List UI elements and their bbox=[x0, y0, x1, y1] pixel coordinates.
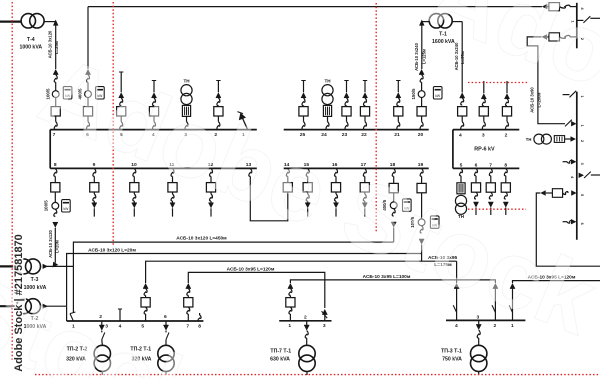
svg-text:5: 5 bbox=[580, 194, 584, 196]
TP-7 LV bus bbox=[279, 320, 331, 322]
wire riser to incomer 6 bbox=[87, 7, 89, 69]
svg-text:4: 4 bbox=[459, 132, 462, 138]
watermark big diagonal bbox=[26, 36, 600, 355]
right bay switch to east bbox=[577, 19, 584, 21]
cable АСБ-10 3х95 L=175м to TP-3 bbox=[146, 261, 457, 283]
svg-text:АСБ-10 3х95 L=120м: АСБ-10 3х95 L=120м bbox=[227, 267, 275, 273]
svg-text:ТП-3 Т-1: ТП-3 Т-1 bbox=[441, 348, 462, 354]
TP-7 transformer T-1 bbox=[299, 345, 315, 361]
feeder bay 16 bbox=[335, 168, 338, 176]
svg-text:3: 3 bbox=[482, 132, 485, 138]
svg-text:kW: kW bbox=[435, 94, 441, 98]
red boundary dotted bottom bbox=[35, 374, 600, 376]
cable АСБ-10 3х95 L=120м TP-2 to TP-7 bbox=[188, 272, 324, 308]
wire T-1 cable down to bay 20 bbox=[421, 22, 423, 69]
feeder bay 22 bbox=[363, 80, 367, 82]
TP-2 bay 8 stub bbox=[199, 313, 201, 315]
cable bay 19 with CT 100/5 bbox=[420, 168, 423, 176]
right bay 5 cable feeder west bbox=[540, 190, 545, 195]
node T-1 cable termination arrow bbox=[419, 20, 424, 26]
cable АСБ-10 3х95 L=120м TP-3 to east bbox=[513, 281, 600, 283]
svg-text:ТН: ТН bbox=[324, 78, 331, 83]
svg-text:АСБ-10 3х120: АСБ-10 3х120 bbox=[48, 30, 53, 58]
svg-text:ТН: ТН bbox=[183, 78, 190, 83]
TP-2 bay 6 transformer T-1 drop bbox=[165, 321, 167, 325]
bus left edge bbox=[49, 130, 51, 169]
svg-text:АСБ-10 3х120 L=450м: АСБ-10 3х120 L=450м bbox=[176, 236, 227, 242]
TP-2 LV bus bbox=[67, 320, 204, 322]
feeder bay 10 bbox=[133, 168, 136, 176]
transformer T-4 bbox=[21, 14, 35, 28]
feeder bay 21 bbox=[396, 80, 400, 82]
svg-text:2: 2 bbox=[505, 132, 508, 138]
svg-text:7: 7 bbox=[489, 162, 492, 168]
wire T-1 right leg bbox=[452, 21, 462, 23]
RP feeder bay 2 top bbox=[506, 81, 508, 93]
svg-text:8: 8 bbox=[54, 162, 57, 168]
wire incoming to T-2 bbox=[0, 305, 16, 307]
transformer T-2 bbox=[16, 299, 31, 314]
feeder bay 11 bbox=[171, 168, 174, 176]
svg-text:ТП-7 Т-1: ТП-7 Т-1 bbox=[270, 348, 291, 354]
disconnector bay 1 bbox=[243, 118, 248, 129]
RP-6 kV box top line bbox=[453, 129, 519, 131]
svg-text:6: 6 bbox=[164, 314, 167, 320]
RP feeder bay 6 bbox=[475, 168, 478, 175]
wire incoming to T-4 bbox=[0, 21, 21, 23]
transformer T-3 bbox=[16, 259, 31, 274]
red boundary dotted RP bottom bbox=[468, 208, 526, 210]
cable АСБ-10 3х120 L=450м bbox=[73, 242, 393, 266]
TP-3 bay 2 cable bay bbox=[493, 283, 498, 288]
red boundary dotted line x113 bbox=[112, 2, 114, 245]
wire top tie line bbox=[88, 6, 542, 8]
svg-text:630 kVA: 630 kVA bbox=[270, 357, 290, 363]
right bay switch 1 bbox=[563, 94, 570, 96]
feeder bay 2 bbox=[216, 80, 220, 82]
TP-3 LV bus bbox=[446, 319, 525, 321]
bus section 1 top line bbox=[50, 129, 257, 131]
TP-2 bay 5 cable bay bbox=[143, 283, 148, 288]
wire T-4 cable down to bay 7 bbox=[55, 22, 57, 69]
T-2 output arrow bbox=[43, 304, 48, 309]
TP-2 transformer T-1 bbox=[158, 345, 174, 361]
TP-3 bay 1 cable bay bbox=[510, 283, 515, 288]
svg-text:kW: kW bbox=[63, 207, 69, 211]
incomer bay 6 with CT 400/5 bbox=[85, 69, 90, 74]
svg-text:RP-6 kV: RP-6 kV bbox=[474, 147, 495, 153]
svg-text:19: 19 bbox=[418, 162, 424, 168]
feeder bay 23 bbox=[344, 80, 348, 82]
svg-text:АСБ-10 3х90: АСБ-10 3х90 bbox=[530, 87, 535, 113]
TP-7 bay 3 switch bbox=[322, 309, 327, 314]
TP-2 bay 4 stub bbox=[119, 309, 121, 321]
TP-2 bay 2/3 transformer T-2 drop bbox=[101, 321, 103, 325]
svg-text:L=20м: L=20м bbox=[54, 240, 59, 253]
RP-6 kV box left edge bbox=[452, 130, 454, 169]
svg-text:24: 24 bbox=[321, 132, 327, 138]
feeder bay 25 bbox=[301, 80, 305, 82]
red boundary dotted RP top bbox=[468, 82, 528, 84]
svg-text:3: 3 bbox=[580, 163, 584, 165]
tie bay 14 breaker bbox=[286, 168, 289, 176]
incomer bay 7 with CT 100/5 bbox=[53, 69, 58, 74]
svg-text:L=25м: L=25м bbox=[54, 41, 59, 54]
svg-text:20: 20 bbox=[418, 132, 424, 138]
svg-text:8: 8 bbox=[504, 162, 507, 168]
RP-6 kV box bottom line bbox=[453, 167, 519, 169]
right bay 6 bbox=[563, 221, 567, 223]
RP feeder bay 8 bbox=[504, 168, 507, 175]
svg-text:1: 1 bbox=[580, 125, 584, 127]
svg-text:1: 1 bbox=[288, 323, 291, 329]
svg-text:5: 5 bbox=[460, 162, 463, 168]
TP-7 bay 2 transformer drop bbox=[306, 321, 308, 325]
right bus section 2 bbox=[576, 92, 578, 240]
TP-3 bay 4 cable bay bbox=[456, 261, 458, 283]
bus section 2 top line bbox=[284, 129, 429, 131]
red boundary dotted line left bbox=[11, 2, 13, 360]
TP-3 transformer T-1 bbox=[471, 345, 487, 361]
svg-text:4: 4 bbox=[455, 323, 458, 329]
svg-text:21: 21 bbox=[394, 132, 400, 138]
svg-text:750 kVA: 750 kVA bbox=[442, 357, 462, 363]
RP feeder bay 3 top bbox=[483, 81, 485, 93]
TP-2 bay 1 switch bbox=[72, 266, 74, 313]
TP-2 bay 7 cable bay bbox=[186, 283, 191, 288]
cable bay 8 with CT 100/5 bbox=[54, 168, 57, 176]
svg-text:2: 2 bbox=[580, 140, 584, 142]
cable АСБ-10 3х95 feeder 5 exit east bbox=[536, 193, 600, 266]
right bus section 1 bbox=[576, 3, 578, 49]
right bay 2 feeder bbox=[542, 34, 547, 39]
wire T-2 node to riser bbox=[43, 305, 67, 307]
bus section 1 bottom line bbox=[50, 167, 257, 169]
svg-text:Т-4: Т-4 bbox=[27, 37, 35, 43]
wire T-4 to cable junction bbox=[44, 21, 56, 23]
svg-text:Adobe Stock | #217581870: Adobe Stock | #217581870 bbox=[13, 234, 25, 372]
wire T-1 left to cable junction bbox=[422, 21, 429, 23]
cable АСБ-10 3х95 L=100м TP-7 to TP-3 bbox=[290, 280, 495, 283]
feeder bay 9 bbox=[93, 168, 96, 176]
svg-text:3: 3 bbox=[323, 323, 326, 329]
transformer T-1 bbox=[429, 14, 443, 28]
wire incoming to T-3 bbox=[0, 265, 16, 267]
feeder bay 17 bbox=[363, 168, 366, 176]
RP incomer bay 4 bbox=[460, 92, 465, 97]
svg-text:ТН: ТН bbox=[526, 137, 532, 142]
bus section 2 bottom line bbox=[284, 167, 429, 169]
svg-text:22: 22 bbox=[361, 132, 367, 138]
right bay 3 bbox=[563, 161, 567, 163]
node T-4 cable termination arrow bbox=[53, 20, 58, 26]
feeder bay 15 bbox=[306, 168, 309, 176]
TP-3 bay 3 transformer drop bbox=[478, 320, 480, 324]
wire T-3 node to riser bbox=[43, 265, 74, 267]
feeder bay 4 bbox=[152, 80, 156, 82]
svg-text:L=200м: L=200м bbox=[537, 92, 542, 107]
svg-text:8: 8 bbox=[198, 323, 201, 329]
tie bay 13 jumper bbox=[249, 168, 252, 176]
svg-text:150/5: 150/5 bbox=[411, 88, 416, 100]
cable АСБ-10 3х90 L=200м bbox=[527, 37, 565, 124]
cable bay 18 with CT 400/5 bbox=[392, 168, 395, 176]
svg-text:АСБ-10 3х120 L=20м: АСБ-10 3х120 L=20м bbox=[88, 247, 136, 253]
TP-2 transformer T-2 bbox=[94, 345, 110, 361]
svg-text:АСБ-10 3х240: АСБ-10 3х240 bbox=[414, 42, 419, 70]
svg-text:7: 7 bbox=[186, 323, 189, 329]
svg-text:6: 6 bbox=[475, 162, 478, 168]
svg-text:6: 6 bbox=[580, 223, 584, 225]
svg-text:1000 kVA: 1000 kVA bbox=[19, 44, 42, 50]
cable АСБ-10 3х120 L=20м bbox=[67, 254, 422, 307]
svg-text:2: 2 bbox=[304, 314, 307, 320]
feeder bay 5 bbox=[120, 70, 122, 72]
incomer bay 20 with CT 150/5 bbox=[419, 69, 424, 74]
TP-7 bay 1 cable bay bbox=[288, 283, 293, 288]
RP voltage transformer bay 5 bbox=[460, 168, 463, 175]
RP feeder bay 7 bbox=[489, 168, 492, 175]
right bay feeder from tie line bbox=[542, 4, 547, 9]
svg-text:АСБ-10 3х120: АСБ-10 3х120 bbox=[48, 229, 53, 257]
svg-text:23: 23 bbox=[342, 132, 348, 138]
cable 8 end arrow at T-3 node bbox=[53, 262, 59, 268]
red boundary dotted line x376 bbox=[375, 3, 377, 233]
svg-text:100/5: 100/5 bbox=[44, 200, 49, 212]
T-3 output arrow bbox=[43, 264, 48, 269]
feeder bay 12 bbox=[210, 168, 213, 176]
